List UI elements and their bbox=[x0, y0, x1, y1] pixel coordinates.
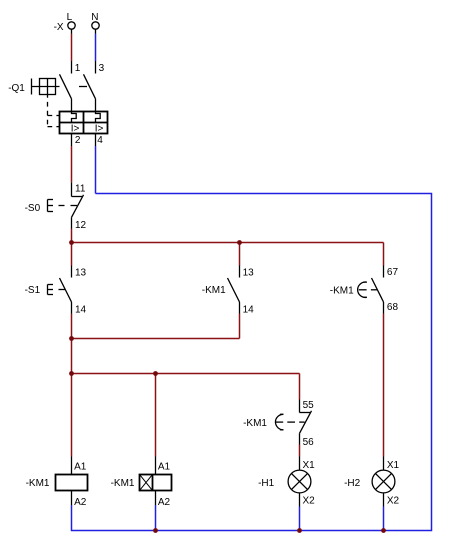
svg-text:4: 4 bbox=[97, 135, 103, 146]
svg-text:55: 55 bbox=[303, 400, 315, 411]
svg-text:2: 2 bbox=[75, 135, 81, 146]
svg-text:-KM1: -KM1 bbox=[26, 478, 50, 489]
svg-text:-KM1: -KM1 bbox=[111, 478, 135, 489]
svg-text:14: 14 bbox=[243, 304, 255, 315]
svg-text:A2: A2 bbox=[158, 497, 171, 508]
svg-text:-Q1: -Q1 bbox=[8, 83, 25, 94]
svg-text:3: 3 bbox=[99, 63, 105, 74]
svg-text:I>: I> bbox=[71, 123, 80, 134]
svg-text:68: 68 bbox=[387, 302, 399, 313]
svg-text:-KM1: -KM1 bbox=[202, 285, 226, 296]
svg-text:X1: X1 bbox=[387, 460, 400, 471]
svg-text:X2: X2 bbox=[387, 496, 400, 507]
svg-text:67: 67 bbox=[387, 267, 399, 278]
svg-text:56: 56 bbox=[303, 437, 315, 448]
svg-text:14: 14 bbox=[75, 304, 87, 315]
svg-text:13: 13 bbox=[75, 267, 87, 278]
svg-text:-H2: -H2 bbox=[344, 478, 361, 489]
svg-text:13: 13 bbox=[243, 267, 255, 278]
svg-text:-S0: -S0 bbox=[25, 203, 41, 214]
svg-text:-H1: -H1 bbox=[258, 478, 275, 489]
svg-text:-KM1: -KM1 bbox=[243, 418, 267, 429]
svg-text:11: 11 bbox=[75, 183, 86, 194]
svg-text:L: L bbox=[67, 12, 73, 23]
svg-text:N: N bbox=[91, 12, 98, 23]
svg-text:X2: X2 bbox=[303, 496, 316, 507]
svg-text:A2: A2 bbox=[74, 497, 87, 508]
svg-text:1: 1 bbox=[75, 63, 81, 74]
svg-text:A1: A1 bbox=[158, 461, 171, 472]
svg-text:I>: I> bbox=[95, 123, 104, 134]
svg-text:A1: A1 bbox=[74, 461, 87, 472]
svg-text:-KM1: -KM1 bbox=[330, 285, 354, 296]
svg-text:X1: X1 bbox=[303, 460, 316, 471]
svg-text:-X: -X bbox=[54, 22, 64, 33]
svg-text:-S1: -S1 bbox=[25, 285, 41, 296]
svg-text:12: 12 bbox=[75, 220, 87, 231]
